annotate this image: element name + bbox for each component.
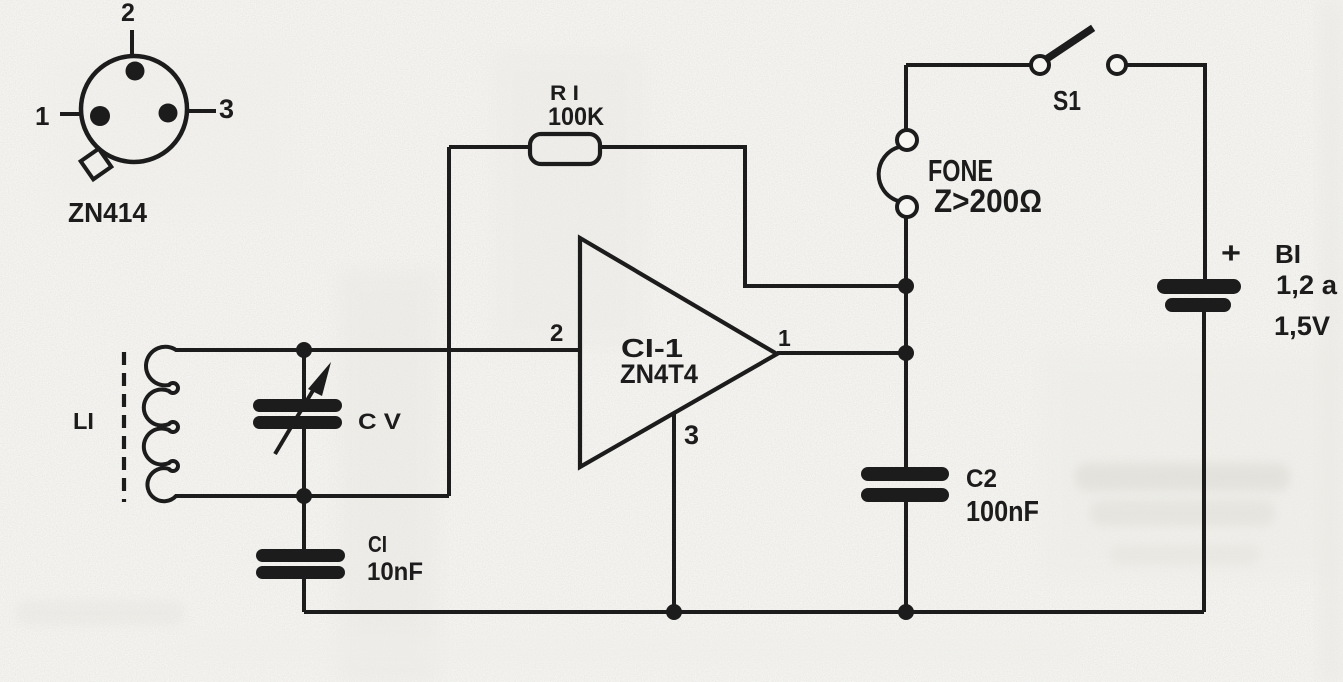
svg-text:ZN4T4: ZN4T4 xyxy=(620,359,698,389)
scan artifact: bottom-left streak xyxy=(15,600,185,626)
wire: C1 top xyxy=(302,496,306,550)
pin 3 wire xyxy=(672,413,676,612)
wire: R1 left segment xyxy=(449,145,532,149)
output pin 1 wire xyxy=(777,351,906,355)
svg-text:R I: R I xyxy=(550,82,579,105)
svg-text:CI: CI xyxy=(368,531,387,557)
svg-text:S1: S1 xyxy=(1053,85,1081,116)
wire: CV top xyxy=(302,350,306,400)
wire: C2 bottom xyxy=(904,502,908,612)
switch S1 terminal left xyxy=(1031,56,1049,74)
svg-text:Z>200Ω: Z>200Ω xyxy=(934,183,1042,219)
svg-text:100nF: 100nF xyxy=(966,496,1039,528)
scan artifact: right edge band xyxy=(1320,0,1343,682)
scan artifact: vertical gray band center xyxy=(492,50,647,350)
svg-text:LI: LI xyxy=(73,408,94,434)
switch S1 terminal right xyxy=(1108,56,1126,74)
package pin dot 2 xyxy=(126,62,145,81)
junction dot tank bottom xyxy=(296,488,312,504)
package lead 2 xyxy=(130,30,134,56)
junction dot tank top xyxy=(296,342,312,358)
CV arrow xyxy=(275,382,318,454)
package pin dot 1 xyxy=(90,106,110,126)
junction dot pin3 on rail xyxy=(666,604,682,620)
resistor R1 xyxy=(530,134,600,164)
svg-text:1,2 a: 1,2 a xyxy=(1276,270,1338,300)
battery B1 short plate xyxy=(1165,298,1231,312)
scan artifact: vertical gray band left xyxy=(338,270,438,682)
wire: phone bottom vertical xyxy=(904,216,908,467)
package pin dot 3 xyxy=(159,104,178,123)
wire: R1 left leg (vertical) xyxy=(447,147,451,496)
phone terminal lower xyxy=(897,197,917,217)
bottom rail wire xyxy=(304,610,1204,614)
svg-text:BI: BI xyxy=(1275,239,1301,269)
variable capacitor CV plate top xyxy=(253,399,342,412)
switch S1 lever xyxy=(1048,30,1090,58)
package lead 1 xyxy=(60,112,81,116)
svg-text:1,5V: 1,5V xyxy=(1274,311,1330,341)
svg-text:1: 1 xyxy=(778,325,791,351)
svg-text:10nF: 10nF xyxy=(367,558,423,586)
phone terminal upper xyxy=(897,130,917,150)
wire: top rail to switch xyxy=(906,63,1031,67)
svg-text:3: 3 xyxy=(684,420,699,450)
wire: R1 right segment xyxy=(600,147,906,286)
svg-text:ZN414: ZN414 xyxy=(68,197,148,228)
junction dot output node xyxy=(898,345,914,361)
svg-text:1: 1 xyxy=(35,101,49,131)
CV arrow head xyxy=(308,362,331,396)
capacitor C2 plate bottom xyxy=(861,488,949,502)
capacitor C2 plate top xyxy=(861,467,949,481)
wire: battery down xyxy=(1202,312,1206,612)
scan artifact: right area bleed-through xyxy=(1040,350,1340,580)
svg-text:C2: C2 xyxy=(966,465,997,493)
phone arc xyxy=(879,147,899,201)
scan artifact: bleed text blob 1 xyxy=(1075,463,1290,491)
package tab xyxy=(81,149,112,180)
battery B1 long plate xyxy=(1157,279,1241,294)
svg-text:+: + xyxy=(1221,237,1241,270)
wire: switch to battery xyxy=(1127,65,1205,279)
IC package outline ZN414 xyxy=(81,56,187,162)
package lead 3 xyxy=(187,109,216,113)
coil core dashed line xyxy=(122,352,126,502)
wire: C1 bottom xyxy=(302,578,306,612)
capacitor C1 plate top xyxy=(256,549,345,562)
wire: phone top vertical xyxy=(904,65,908,130)
svg-text:C V: C V xyxy=(358,409,401,434)
scan artifact: bleed text blob 2 xyxy=(1090,500,1275,526)
wire: CV bottom xyxy=(302,428,306,496)
capacitor C1 plate bottom xyxy=(256,566,345,579)
op-amp CI-1 triangle xyxy=(580,238,777,467)
junction dot C2 on rail xyxy=(898,604,914,620)
scan artifact: top-left mottle xyxy=(40,40,300,220)
svg-text:3: 3 xyxy=(219,94,234,124)
inductor L1 with top wire to pin 2 xyxy=(144,347,580,501)
svg-text:2: 2 xyxy=(121,0,135,27)
svg-text:2: 2 xyxy=(550,320,563,347)
svg-text:100K: 100K xyxy=(548,103,604,131)
scan artifact: bottom band xyxy=(180,635,1080,665)
variable capacitor CV plate bottom xyxy=(253,416,342,429)
junction dot feedback node xyxy=(898,278,914,294)
scan artifact: bleed text blob 3 xyxy=(1110,545,1260,565)
